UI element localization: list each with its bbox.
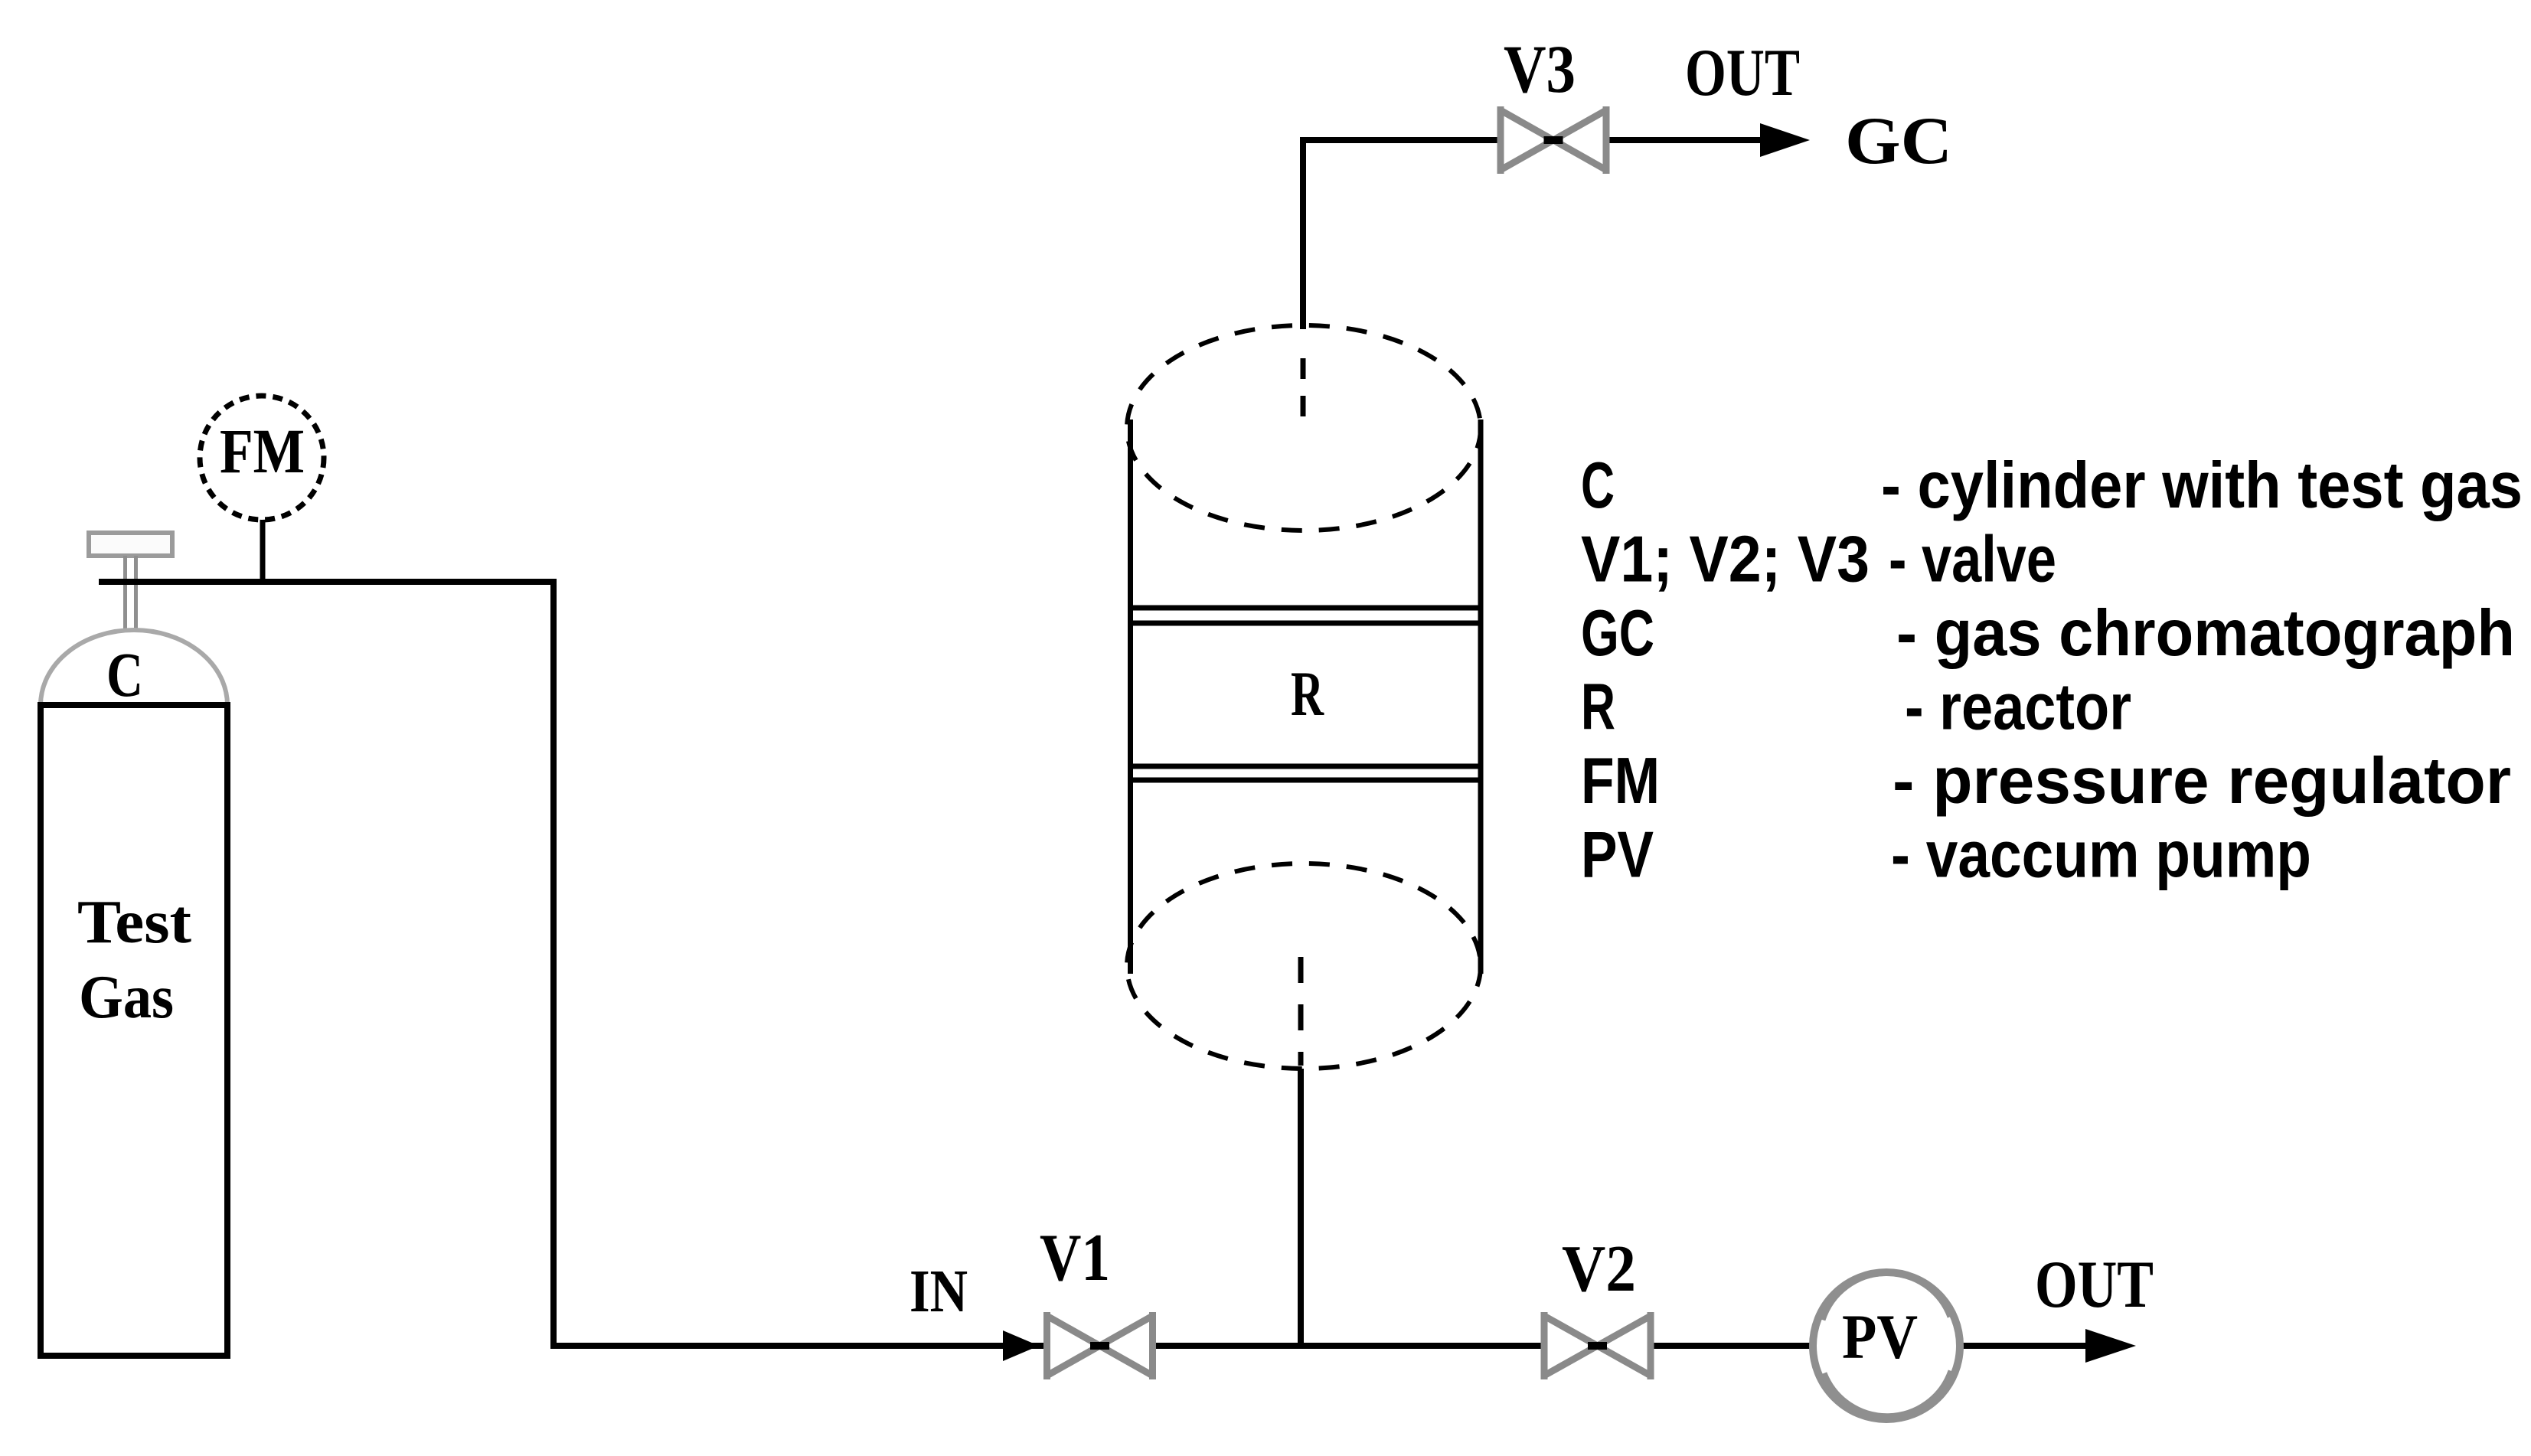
svg-text:- pressure regulator: - pressure regulator <box>1893 745 2511 818</box>
svg-text:Gas: Gas <box>79 962 174 1031</box>
svg-text:- valve: - valve <box>1889 524 2056 596</box>
svg-text:R: R <box>1581 671 1615 744</box>
svg-text:Test: Test <box>77 889 191 956</box>
svg-text:OUT: OUT <box>1685 36 1800 110</box>
svg-text:IN: IN <box>910 1258 968 1325</box>
svg-text:C: C <box>106 639 143 710</box>
svg-text:V1: V1 <box>1040 1221 1110 1295</box>
svg-text:OUT: OUT <box>2035 1248 2154 1322</box>
svg-text:V3: V3 <box>1504 32 1576 107</box>
svg-text:- vaccum pump: - vaccum pump <box>1891 819 2311 892</box>
svg-text:FM: FM <box>1581 745 1660 818</box>
svg-text:R: R <box>1291 658 1324 729</box>
svg-text:V1; V2; V3: V1; V2; V3 <box>1581 524 1870 596</box>
svg-text:PV: PV <box>1842 1301 1918 1372</box>
svg-text:PV: PV <box>1581 819 1654 892</box>
svg-text:GC: GC <box>1581 597 1654 670</box>
svg-text:- reactor: - reactor <box>1905 671 2131 744</box>
svg-text:FM: FM <box>220 416 305 486</box>
svg-text:GC: GC <box>1845 104 1952 178</box>
svg-text:- cylinder with test gas: - cylinder with test gas <box>1881 449 2523 522</box>
svg-text:- gas chromatograph: - gas chromatograph <box>1896 597 2515 670</box>
svg-text:V2: V2 <box>1562 1231 1636 1305</box>
svg-text:C: C <box>1581 449 1615 522</box>
